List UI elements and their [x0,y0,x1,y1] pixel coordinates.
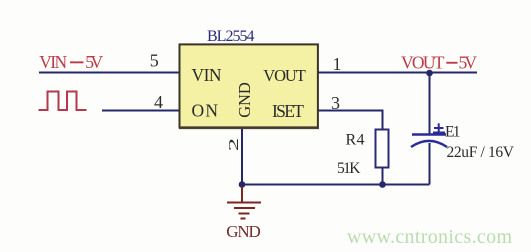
capacitor E1 top plate [412,133,446,135]
square wave symbol [39,92,87,111]
svg-text:5V: 5V [459,53,478,73]
wire E1 top [429,73,431,135]
svg-text:5V: 5V [85,52,103,72]
svg-text:GND: GND [235,82,254,118]
svg-text:VOUT: VOUT [401,53,445,73]
svg-text:R4: R4 [346,132,365,149]
node VOUT junction [426,70,433,77]
svg-text:ISET: ISET [272,101,304,121]
wire pin4 ON net [102,110,179,112]
svg-text:5: 5 [150,51,159,71]
ground symbol [227,187,261,219]
wire pin2 GND vertical [241,127,243,185]
IC U1 BL2554 body [180,44,318,127]
svg-text:51K: 51K [337,160,361,177]
wire pin3 ISET net [318,111,383,131]
svg-text:ON: ON [192,101,219,121]
capacitor E1 curved plate [411,141,447,147]
wire bottom ground bus [242,184,430,186]
svg-text:BL2554: BL2554 [207,28,255,45]
net label VOUT-5V dash [446,62,457,64]
node GND junction [239,181,246,188]
node R4 junction [379,181,386,188]
wire pin1 VOUT net [318,72,477,74]
resistor R4 body [376,130,389,168]
svg-text:3: 3 [331,93,340,113]
svg-text:VIN: VIN [192,65,222,85]
svg-text:4: 4 [154,92,163,112]
svg-text:2: 2 [227,138,242,152]
svg-text:22uF / 16V: 22uF / 16V [447,144,515,161]
capacitor E1 plus-minus mark [433,123,445,132]
wire E1 bottom [429,143,431,185]
svg-text:VIN: VIN [39,52,67,72]
svg-text:E1: E1 [445,124,461,141]
wire pin5 VIN net [39,72,179,74]
svg-text:1: 1 [333,54,342,74]
svg-text:www.cntronics.com: www.cntronics.com [347,226,512,248]
wire R4 bottom [382,167,384,185]
svg-text:VOUT: VOUT [263,66,306,85]
svg-text:GND: GND [226,222,261,241]
net label VIN-5V dash [70,61,84,63]
